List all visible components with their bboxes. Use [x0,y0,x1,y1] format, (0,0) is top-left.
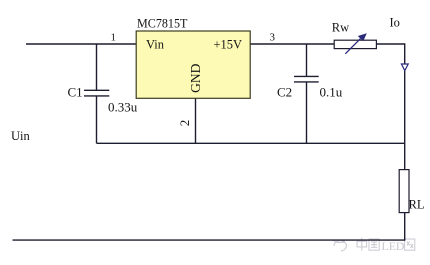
svg-text:Uin: Uin [11,129,31,143]
svg-text:Rw: Rw [332,20,349,34]
svg-text:MC7815T: MC7815T [137,16,188,30]
svg-text:+15V: +15V [214,38,243,52]
svg-text:RL: RL [409,197,425,211]
svg-text:Io: Io [390,15,400,29]
svg-text:C1: C1 [68,84,83,99]
svg-text:C2: C2 [277,85,292,100]
svg-text:Vin: Vin [146,38,165,52]
svg-text:LED: LED [382,239,405,253]
svg-text:0.1u: 0.1u [320,85,343,100]
svg-text:0.33u: 0.33u [108,99,138,114]
svg-text:3: 3 [270,31,276,43]
svg-text:2: 2 [177,120,192,127]
svg-text:1: 1 [111,31,117,43]
svg-text:GND: GND [188,63,203,92]
